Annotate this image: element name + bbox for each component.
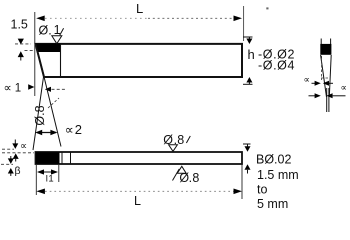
svg-text:1.5 mm: 1.5 mm xyxy=(257,168,299,182)
svg-text:1: 1 xyxy=(48,174,53,185)
svg-text:1: 1 xyxy=(15,83,21,95)
svg-text:to: to xyxy=(257,183,267,197)
svg-text:h: h xyxy=(248,47,255,62)
svg-text:∝: ∝ xyxy=(304,75,310,85)
svg-text:∝: ∝ xyxy=(65,123,74,137)
svg-text:-Ø.Ø4: -Ø.Ø4 xyxy=(258,59,295,73)
svg-text:5 mm: 5 mm xyxy=(257,197,288,211)
svg-text:L: L xyxy=(136,1,143,16)
svg-text:2: 2 xyxy=(75,122,82,137)
svg-text:∝: ∝ xyxy=(341,83,347,93)
svg-text:8: 8 xyxy=(192,171,199,185)
svg-text:∝: ∝ xyxy=(4,83,12,95)
svg-text:Ø.8: Ø.8 xyxy=(33,105,47,125)
svg-text:1.5: 1.5 xyxy=(11,18,28,32)
svg-text:L: L xyxy=(134,194,141,208)
svg-text:BØ.02: BØ.02 xyxy=(256,153,291,167)
svg-text:β: β xyxy=(15,165,21,177)
svg-text:8: 8 xyxy=(177,133,184,147)
svg-text:∝: ∝ xyxy=(20,141,27,152)
svg-text:Ø: Ø xyxy=(39,24,49,38)
